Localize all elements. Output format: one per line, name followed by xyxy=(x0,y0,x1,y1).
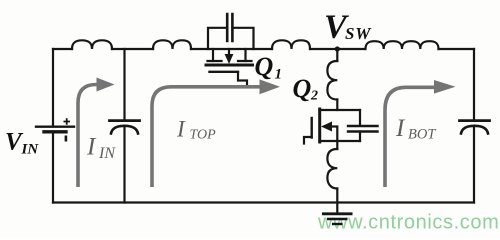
wire top rail segment B xyxy=(112,48,153,50)
inductor L3 xyxy=(272,40,310,49)
transistor Q1 gate lead xyxy=(238,72,247,86)
node VSW junction wire xyxy=(336,49,338,61)
transistor Q2 top terminal line xyxy=(320,109,361,111)
transistor Q1 drain shoulder xyxy=(208,60,222,62)
current arrow I_BOT xyxy=(385,87,435,187)
svg-text:IN: IN xyxy=(21,142,40,158)
capacitor Cin curved plate xyxy=(111,126,138,134)
capacitor Cin top lead xyxy=(123,49,125,120)
transistor Q1 channel bar xyxy=(206,64,253,67)
wire right branch upper xyxy=(473,49,475,120)
battery minus tick xyxy=(65,136,68,142)
transistor Q1 right stub xyxy=(244,49,246,61)
wire ground stem xyxy=(336,203,338,214)
inductor L2 xyxy=(153,40,191,49)
transistor Q1 source shoulder xyxy=(238,60,252,62)
ground xyxy=(322,214,353,224)
transistor Q2 body tail xyxy=(332,127,338,142)
wire top rail segment A xyxy=(53,48,72,50)
wire right branch lower xyxy=(473,128,475,203)
transistor Q2 gate lead xyxy=(304,137,312,144)
battery plus sign xyxy=(64,118,71,124)
capacitor C1 right lead xyxy=(233,28,254,49)
svg-text:I: I xyxy=(176,117,186,142)
wire left branch xyxy=(52,49,54,126)
capacitor Cout flat plate xyxy=(460,119,490,122)
svg-text:BOT: BOT xyxy=(408,127,436,143)
transistor Q1 gate bar xyxy=(210,71,239,73)
capacitor Cin bottom lead xyxy=(123,128,125,203)
svg-text:Q: Q xyxy=(255,52,274,81)
node VSW dot xyxy=(335,46,340,51)
wire bottom rail xyxy=(53,201,474,203)
svg-text:SW: SW xyxy=(345,24,372,43)
transistor Q2 channel bar xyxy=(318,109,321,142)
wire top rail segment C xyxy=(191,48,272,50)
capacitor C2 bottom lead xyxy=(359,133,361,142)
capacitor C1 plates xyxy=(227,14,232,41)
transistor Q1 left stub xyxy=(212,49,214,61)
transistor Q2 gate bar xyxy=(311,118,313,138)
battery VIN short plate xyxy=(44,130,66,133)
svg-text:TOP: TOP xyxy=(190,128,217,143)
transistor Q1 arrow head xyxy=(225,54,234,64)
capacitor Cout curved plate xyxy=(461,126,488,134)
wire L6 to bottom rail xyxy=(336,189,338,203)
current arrow I_IN xyxy=(78,85,97,188)
wire top rail segment D xyxy=(310,48,365,50)
wire L5 to Q2 xyxy=(336,100,338,111)
inductor L5 upper coil of Q2 branch xyxy=(327,61,337,100)
current arrow I_TOP xyxy=(152,87,261,187)
transistor Q2 bottom terminal line xyxy=(320,140,361,142)
inductor L6 lower coil of Q2 branch xyxy=(327,149,337,189)
svg-text:IN: IN xyxy=(98,145,116,162)
svg-text:Q: Q xyxy=(293,74,312,103)
inductor L4 xyxy=(366,41,439,49)
capacitor Cin flat plate xyxy=(110,119,140,122)
svg-text:1: 1 xyxy=(275,67,283,83)
wire top rail segment E xyxy=(439,48,475,50)
battery VIN long plate xyxy=(36,125,74,127)
capacitor C1 left lead xyxy=(208,28,227,49)
inductor L1 xyxy=(72,40,112,49)
svg-text:2: 2 xyxy=(310,89,318,104)
wire Q2 to L6 xyxy=(336,141,338,149)
capacitor C2 top lead xyxy=(359,110,361,125)
transistor Q1 arrow stem xyxy=(228,49,230,54)
transistor Q2 arrow head xyxy=(321,122,332,132)
capacitor C2 plates xyxy=(348,126,378,132)
